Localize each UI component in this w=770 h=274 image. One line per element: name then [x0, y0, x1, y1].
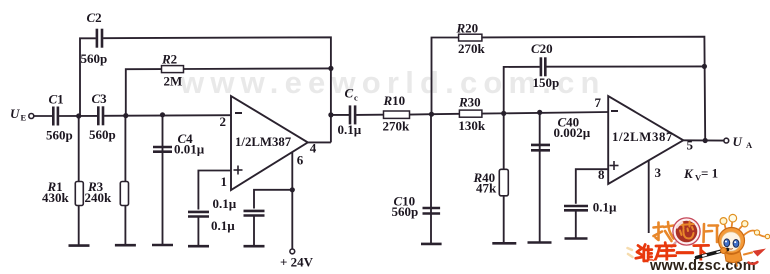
- capacitor C3: [98, 106, 103, 125]
- svg-text:0.1µ: 0.1µ: [211, 218, 235, 233]
- ground C40: [528, 241, 552, 244]
- node output 2: [703, 138, 708, 143]
- capacitor C4: [153, 147, 172, 152]
- wire R40 branch: [503, 113, 505, 243]
- resistor R10: [384, 111, 410, 118]
- svg-text:R20: R20: [456, 20, 479, 35]
- node C20/R40: [501, 111, 506, 116]
- svg-text:4: 4: [310, 141, 317, 156]
- svg-text:560p: 560p: [392, 204, 419, 219]
- wire R3 branch: [124, 116, 126, 246]
- svg-text:C20: C20: [531, 41, 553, 56]
- minus sign U2: [611, 110, 618, 112]
- svg-text:240k: 240k: [85, 190, 113, 205]
- wire: [253, 216, 255, 247]
- op-amp U1 triangle: [231, 96, 308, 190]
- wire R20 branch: [432, 38, 459, 115]
- capacitor C20: [541, 57, 545, 76]
- svg-text:270k: 270k: [383, 119, 411, 134]
- node Cc tee: [328, 112, 333, 117]
- ground C4: [152, 244, 173, 247]
- wire C40 branch: [539, 112, 541, 242]
- node after C3: [123, 113, 128, 118]
- svg-text:150p: 150p: [533, 75, 560, 90]
- wire C4 branch: [162, 115, 164, 245]
- ground R1: [69, 244, 90, 247]
- plus sign U2: [610, 161, 619, 170]
- svg-text:R30: R30: [458, 94, 481, 109]
- ground pin1 cap: [188, 245, 209, 248]
- svg-text:5: 5: [687, 138, 694, 153]
- ghost strokes left of red text: [628, 248, 633, 257]
- svg-text:6: 6: [297, 152, 304, 167]
- seal circle xin: [673, 218, 700, 245]
- capacitor Cc: [350, 105, 355, 124]
- node C20 right: [702, 64, 707, 69]
- wire pin 6 to +24V: [291, 152, 293, 249]
- wire Cc line: [331, 114, 349, 116]
- char wei: [637, 246, 642, 256]
- svg-text:0.1µ: 0.1µ: [213, 196, 237, 211]
- capacitor C1: [53, 107, 58, 126]
- wire C2 to output node: [103, 37, 331, 142]
- terminal +24V: [290, 249, 295, 254]
- svg-text:430k: 430k: [42, 190, 70, 205]
- resistor R1: [75, 182, 83, 206]
- capacitor 0.1u lower-left: [188, 212, 209, 217]
- terminal UE: [29, 114, 34, 119]
- plus sign U1: [234, 166, 243, 175]
- wire R30 to pin 7: [482, 112, 608, 114]
- wire main to R30: [432, 113, 460, 115]
- wire: [410, 113, 432, 115]
- wire: [575, 210, 577, 238]
- wire bypass cap branch: [254, 190, 292, 209]
- capacitor 0.1u bypass: [244, 211, 265, 216]
- node R2 to output: [328, 66, 333, 71]
- resistor R40: [499, 169, 508, 196]
- svg-text:2: 2: [220, 114, 227, 129]
- svg-text:560p: 560p: [46, 128, 73, 143]
- terminal UA: [724, 138, 729, 143]
- minus sign U1: [235, 112, 242, 114]
- legs: [728, 262, 731, 266]
- svg-text:0.1µ: 0.1µ: [338, 122, 362, 137]
- antenna stalks: [724, 220, 767, 237]
- node bypass cap to pin6: [290, 187, 295, 192]
- node after C1: [76, 113, 81, 118]
- wire R2 branch: [126, 69, 162, 116]
- resistor R3: [120, 182, 128, 206]
- eyes: [724, 239, 730, 247]
- svg-text:0.01µ: 0.01µ: [174, 142, 205, 157]
- svg-text:130k: 130k: [458, 118, 486, 133]
- wire output pin 4: [308, 141, 331, 143]
- antenna balls: [720, 218, 727, 225]
- svg-text:R10: R10: [383, 93, 406, 108]
- wire C20 to output vertical: [546, 65, 704, 67]
- svg-text:8: 8: [598, 167, 605, 182]
- svg-text:U: U: [10, 106, 20, 121]
- capacitor 0.1u U2: [564, 206, 588, 210]
- svg-text:K: K: [683, 166, 694, 181]
- wire R2 to output node: [184, 67, 331, 70]
- resistor R20: [459, 34, 482, 41]
- svg-text:2M: 2M: [164, 74, 183, 89]
- ground bypass cap: [244, 245, 265, 248]
- wire pin 1: [198, 171, 231, 210]
- resistor R30: [459, 110, 482, 117]
- svg-text:0.1µ: 0.1µ: [593, 200, 617, 215]
- svg-text:7: 7: [595, 95, 602, 110]
- wire to pin 2: [104, 114, 231, 117]
- watermark logo bottom right: [628, 214, 770, 274]
- wire: [356, 114, 383, 116]
- wire output pin 5: [683, 139, 724, 141]
- svg-text:R2: R2: [161, 52, 177, 67]
- wire C2 branch: [80, 38, 96, 116]
- svg-text:E: E: [21, 113, 27, 123]
- svg-text:270k: 270k: [458, 41, 486, 56]
- resistor R2: [162, 66, 184, 73]
- wire: [197, 217, 199, 247]
- capacitor C40: [531, 145, 550, 150]
- ground pin8 cap: [565, 237, 588, 240]
- body: [725, 252, 743, 263]
- red accessories: [753, 249, 767, 257]
- svg-text:C3: C3: [92, 91, 108, 106]
- wire C10 branch: [430, 114, 432, 244]
- head: [719, 228, 745, 254]
- svg-text:1: 1: [221, 174, 228, 189]
- svg-text:3: 3: [655, 165, 662, 180]
- svg-text:C: C: [345, 86, 354, 101]
- svg-text:U: U: [733, 134, 743, 149]
- node C4 tap: [160, 112, 165, 117]
- wire pin 3: [648, 161, 650, 234]
- char xia: [694, 244, 709, 247]
- wire C20 branch: [504, 67, 540, 114]
- ground C10: [421, 243, 442, 246]
- svg-text:1/2LM387: 1/2LM387: [235, 135, 292, 149]
- svg-text:C2: C2: [87, 10, 102, 25]
- char ku: [664, 243, 667, 246]
- mascot: [697, 214, 770, 266]
- node C40: [537, 110, 542, 115]
- red text weikuyixia: [636, 243, 709, 262]
- node R10/R30/C10/R20: [429, 112, 434, 117]
- capacitor C2: [97, 29, 102, 48]
- svg-text:C1: C1: [49, 92, 64, 107]
- ground R3: [115, 244, 136, 247]
- svg-text:0.002µ: 0.002µ: [554, 125, 591, 140]
- svg-text:+ 24V: + 24V: [280, 255, 314, 270]
- svg-text:560p: 560p: [89, 127, 116, 142]
- telescope stick: [697, 250, 728, 258]
- char zhao (orange, white halo): [654, 222, 674, 241]
- svg-text:A: A: [746, 140, 753, 150]
- char pian (orange, white halo): [704, 224, 719, 242]
- wire R20 to output: [482, 37, 705, 141]
- mouth: [730, 248, 733, 251]
- wire pin 8: [576, 169, 608, 204]
- wire: [59, 115, 97, 117]
- svg-text:1/2LM387: 1/2LM387: [612, 130, 673, 144]
- wire input line: [34, 115, 52, 117]
- wire R1 branch: [78, 116, 80, 246]
- char yi: [677, 251, 692, 254]
- svg-text:= 1: = 1: [701, 166, 718, 181]
- ground R40: [492, 242, 516, 245]
- op-amp U2 triangle: [608, 96, 683, 184]
- capacitor C10: [423, 208, 441, 214]
- svg-text:c: c: [354, 93, 358, 103]
- svg-text:560p: 560p: [81, 51, 108, 66]
- svg-text:47k: 47k: [476, 181, 497, 196]
